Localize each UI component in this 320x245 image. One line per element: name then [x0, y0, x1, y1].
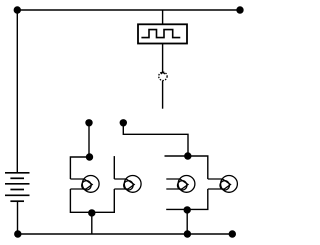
wire bottom bracket Q1-Q2 [70, 189, 114, 212]
wire Q2 top bracket (dead end top) [113, 156, 115, 179]
wire L-shaped from node B to node C [123, 123, 188, 156]
transistor Q3 inner circle [178, 181, 187, 190]
wire left rail [16, 10, 18, 173]
transistor Q1 leads and arrow [70, 179, 92, 189]
node bottom-left junction [14, 230, 21, 237]
transistor Q4 leads and arrow [208, 179, 231, 189]
node F junction (right bracket) [184, 206, 191, 213]
transistor Q3 body [178, 176, 195, 193]
transistor Q4 inner circle [220, 181, 229, 190]
pulse source V1 square-wave glyph [141, 30, 180, 38]
transistor Q2 body [124, 176, 141, 193]
wire vertical segment node A (dead end top) [88, 123, 90, 157]
wire bracket to bottom rail (left) [91, 212, 93, 234]
transistor Q3 leads and arrow (floating stubs) [166, 179, 188, 189]
node C junction [184, 152, 191, 159]
node D junction [86, 153, 93, 160]
probe P1 arrowhead [161, 72, 165, 74]
wire from top rail to pulse source V1 [162, 10, 164, 24]
wire node C horizontal to Q4 top bracket [165, 156, 208, 179]
wire bracket to bottom rail (right) [186, 210, 188, 235]
wire battery bottom [17, 201, 19, 234]
wire below probe (dead end) [162, 81, 164, 109]
battery B1 plates [5, 173, 30, 201]
node top-left junction [14, 6, 21, 13]
probe P1 dashed circle [159, 72, 167, 80]
node A terminal [85, 119, 92, 126]
node top-right terminal [236, 6, 243, 13]
node B terminal [120, 119, 127, 126]
wire V1 output down [162, 44, 164, 74]
wire Q1 gate bracket [70, 157, 89, 179]
node bottom-right terminal [229, 230, 236, 237]
transistor Q1 inner circle [82, 181, 91, 190]
transistor Q2 inner circle [124, 181, 133, 190]
transistor Q4 body [221, 176, 238, 193]
transistor Q1 body [82, 176, 99, 193]
wire top rail [17, 9, 240, 11]
node E junction (left bracket) [88, 209, 95, 216]
transistor Q2 leads and arrow [114, 179, 134, 189]
wire bottom rail [18, 233, 233, 235]
pulse source V1 box [138, 24, 187, 43]
wire bottom bracket Q3-Q4 [166, 189, 208, 209]
node G junction (rail) [184, 230, 191, 237]
